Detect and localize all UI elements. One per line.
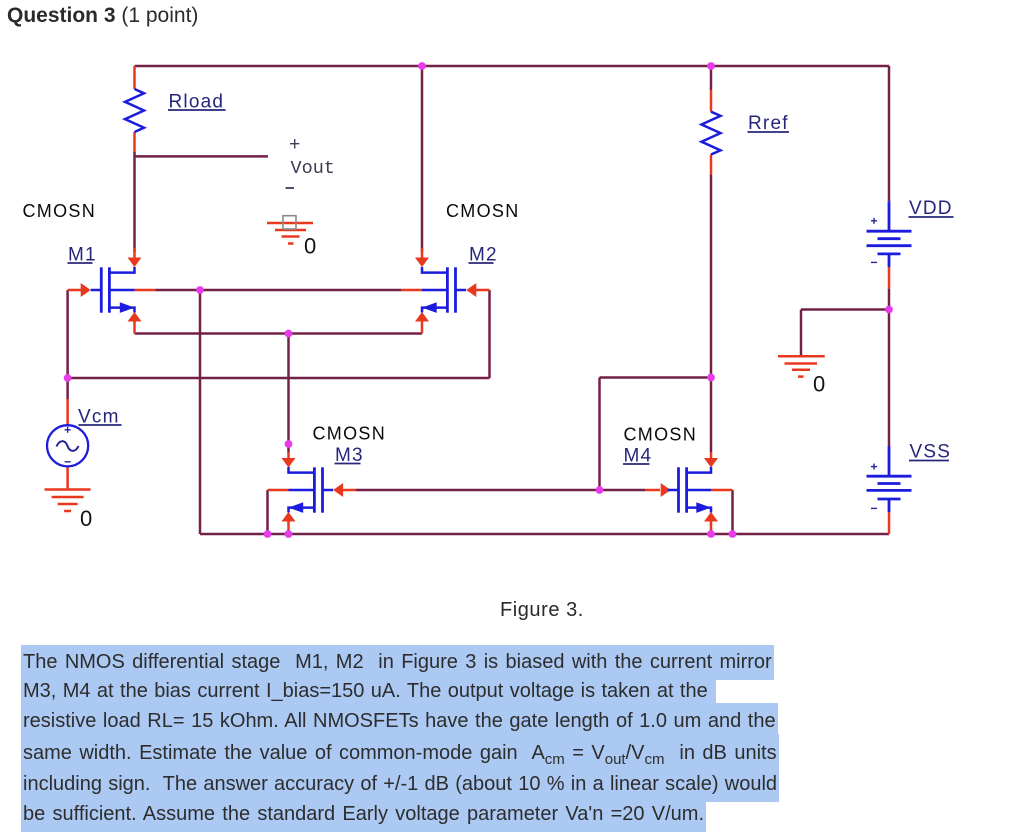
svg-text:CMOSN: CMOSN [313,424,387,444]
svg-text:+: + [289,134,300,156]
svg-text:Rref: Rref [748,113,789,134]
svg-text:CMOSN: CMOSN [446,201,520,221]
svg-text:CMOSN: CMOSN [624,425,698,445]
svg-text:VSS: VSS [910,442,952,463]
svg-text:0: 0 [304,234,316,259]
svg-text:0: 0 [813,372,825,397]
svg-text:VDD: VDD [909,198,953,219]
svg-text:0: 0 [80,506,92,531]
svg-text:CMOSN: CMOSN [23,201,97,221]
svg-text:Vout: Vout [291,158,335,179]
